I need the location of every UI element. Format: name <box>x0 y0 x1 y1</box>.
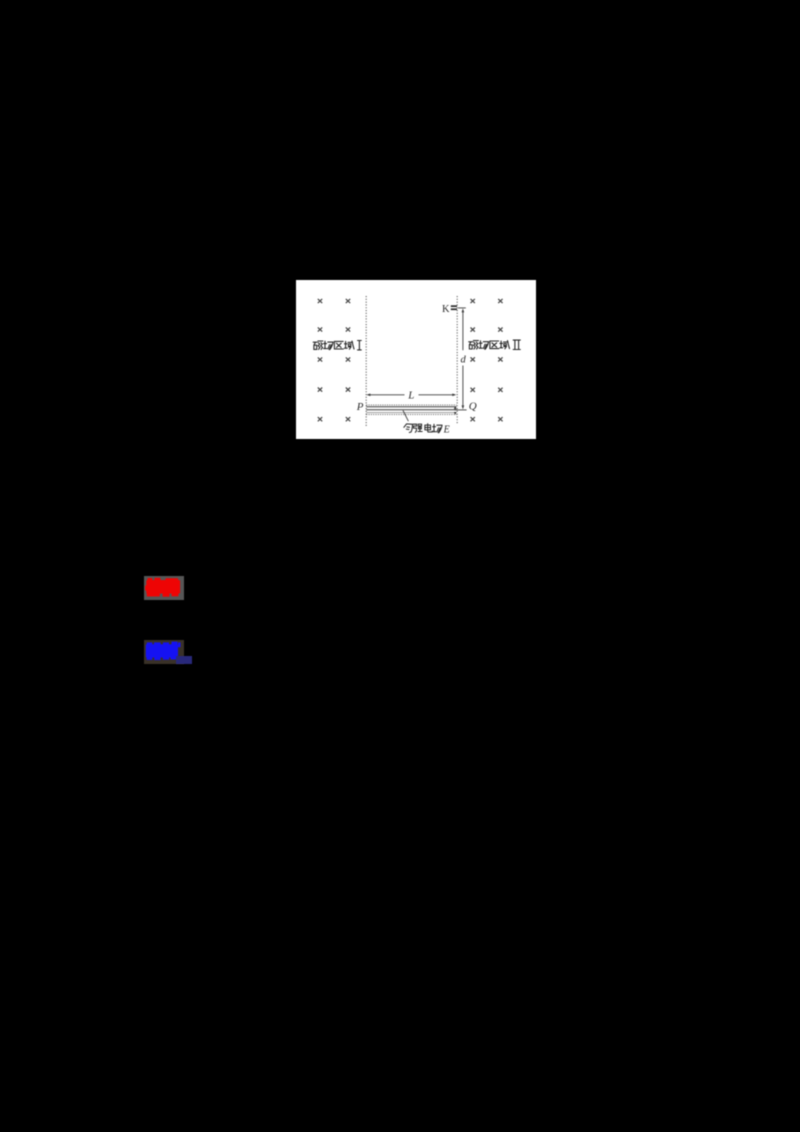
field cross region II r5c1 <box>470 417 474 421</box>
field cross region I r3c1 <box>318 357 322 361</box>
field cross region II r3c2 <box>498 357 502 361</box>
dimension d top tick <box>458 306 466 308</box>
field cross region I r2c1 <box>318 327 322 331</box>
svg-text:K: K <box>442 303 450 314</box>
label L <box>407 389 414 401</box>
leader line to field label <box>403 410 408 421</box>
label yunqiang-dianchang-E (uniform electric field E) <box>404 423 442 432</box>
field cross region II r5c2 <box>498 417 502 421</box>
field cross region II r3c1 <box>470 357 474 361</box>
capacitor plate top dotted <box>366 403 456 405</box>
red stamp box <box>144 576 184 600</box>
label K (slit) <box>442 303 450 314</box>
label cichang-quyu-II (magnetic field region II) <box>469 340 521 349</box>
red glyph blob <box>145 578 180 597</box>
field cross region I r5c2 <box>346 417 350 421</box>
svg-text:P: P <box>356 400 364 412</box>
capacitor plate lower gray line <box>366 411 456 413</box>
label Q <box>469 400 477 412</box>
svg-text:Q: Q <box>469 400 477 412</box>
field cross region I r5c1 <box>318 417 322 421</box>
label d <box>460 354 466 365</box>
svg-text:E: E <box>443 424 450 435</box>
label P <box>356 400 364 412</box>
capacitor plate top solid <box>366 405 456 407</box>
slit symbol (double bar) <box>451 305 457 310</box>
field cross region I r1c2 <box>346 298 350 302</box>
field cross region I r1c1 <box>318 298 322 302</box>
field cross region II r1c2 <box>498 298 502 302</box>
field cross region II r4c1 <box>470 387 474 391</box>
svg-text:L: L <box>407 389 414 401</box>
plate gap arrows <box>454 406 457 415</box>
field cross region I r4c2 <box>346 387 350 391</box>
dimension L arrow line <box>366 393 456 396</box>
dimension d arrow line <box>462 308 465 409</box>
label cichang-quyu-I (magnetic field region I) <box>313 340 361 349</box>
capacitor plate bottom dotted <box>366 413 456 415</box>
figure panel (white) <box>296 280 536 439</box>
field cross region I r3c2 <box>346 357 350 361</box>
field cross region II r2c2 <box>498 327 502 331</box>
label E italic <box>443 424 450 435</box>
field cross region II r2c1 <box>470 327 474 331</box>
field cross region II r4c2 <box>498 387 502 391</box>
boundary dotted line right <box>456 296 458 424</box>
capacitor plate bottom solid <box>366 408 456 410</box>
dimension d bottom tick <box>454 408 466 410</box>
field cross region II r1c1 <box>470 298 474 302</box>
blue stamp box <box>144 640 184 664</box>
blue glyph blob <box>146 641 181 660</box>
navy underscore tail <box>176 656 192 664</box>
svg-text:d: d <box>460 354 466 365</box>
field cross region I r2c2 <box>346 327 350 331</box>
field cross region I r4c1 <box>318 387 322 391</box>
boundary dotted line left <box>365 296 367 426</box>
